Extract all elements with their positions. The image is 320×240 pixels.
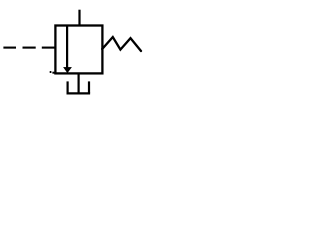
valve body (square envelope) xyxy=(55,26,102,74)
pilot line (dashed), dash 1 xyxy=(3,47,16,49)
arrowhead (flow direction, pointing down) xyxy=(64,67,72,72)
tank left wall xyxy=(66,81,68,93)
background xyxy=(0,0,147,103)
wire (internal flow-path arrow shaft) xyxy=(66,26,68,69)
tank bottom xyxy=(67,92,91,94)
tank right wall xyxy=(88,81,90,93)
wire (drain line from bottom port into tank) xyxy=(77,73,79,93)
wire (bottom edge overshoot at lower-left corner) xyxy=(52,72,55,74)
pilot line (dashed), dash 3 (meets valve body) xyxy=(42,47,56,49)
wire (small dash artifact left of lower-left corner) xyxy=(50,71,52,73)
spring (zigzag on right side) xyxy=(102,37,141,51)
pilot line (dashed), dash 2 xyxy=(23,47,36,49)
node P (top pressure port stub) xyxy=(78,10,80,27)
